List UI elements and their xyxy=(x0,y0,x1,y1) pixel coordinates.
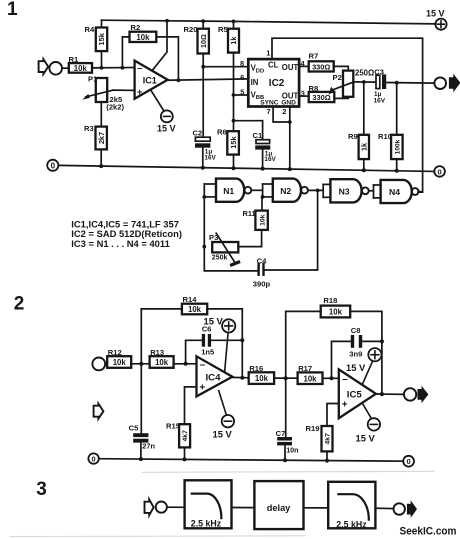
svg-text:N3: N3 xyxy=(339,187,350,197)
svg-text:2.5 kHz: 2.5 kHz xyxy=(336,520,367,530)
svg-text:2: 2 xyxy=(282,107,286,116)
svg-text:N4: N4 xyxy=(389,187,400,197)
wire R17 to IC5 inverting input xyxy=(323,377,339,379)
input arrow section3 xyxy=(145,499,154,515)
svg-text:R13: R13 xyxy=(150,348,164,357)
svg-text:N1: N1 xyxy=(223,186,234,196)
output terminal section2 xyxy=(404,386,429,403)
svg-text:10k: 10k xyxy=(74,64,88,73)
svg-text:10k: 10k xyxy=(303,374,317,383)
svg-text:10k: 10k xyxy=(255,374,269,383)
ground terminal right section2 xyxy=(403,456,414,467)
svg-text:R12: R12 xyxy=(108,348,122,357)
svg-text:R6: R6 xyxy=(217,128,227,137)
svg-text:R8: R8 xyxy=(309,84,319,93)
capacitor C5 27n xyxy=(129,364,156,459)
resistor R1 10k xyxy=(69,55,93,73)
svg-text:DD: DD xyxy=(256,68,264,74)
wire VBB pin5 xyxy=(232,87,249,97)
svg-text:OUT: OUT xyxy=(282,63,299,72)
op-amp IC4 xyxy=(197,356,233,396)
svg-text:delay: delay xyxy=(267,503,291,513)
svg-text:+: + xyxy=(342,399,348,410)
resistor R5 1k xyxy=(218,20,239,132)
node X junction xyxy=(139,362,143,366)
svg-text:R17: R17 xyxy=(298,364,312,373)
output terminal section1 xyxy=(434,74,460,93)
svg-text:IN: IN xyxy=(251,78,259,87)
svg-text:1n5: 1n5 xyxy=(201,347,215,356)
capacitor C2 1u xyxy=(193,128,217,167)
svg-text:R2: R2 xyxy=(131,23,141,32)
wire P1 bottom to R3 xyxy=(100,102,102,127)
svg-text:10k: 10k xyxy=(329,308,343,317)
wire filter2 to output xyxy=(375,507,393,509)
capacitor C6 1n5 xyxy=(186,325,245,364)
svg-text:250k: 250k xyxy=(212,254,228,261)
svg-text:4k7: 4k7 xyxy=(182,430,189,442)
junction IC4 output node xyxy=(240,376,244,380)
junction dots ground bus section2 xyxy=(139,457,329,463)
svg-text:R9: R9 xyxy=(348,132,358,141)
scan artifact bottom edge xyxy=(10,535,305,538)
wire VBB node to C1 xyxy=(234,120,263,122)
nand gate N2 xyxy=(273,179,308,202)
svg-text:+: + xyxy=(137,87,143,98)
ground bus section2 xyxy=(99,459,404,462)
svg-text:2.5 kHz: 2.5 kHz xyxy=(191,518,222,528)
wire N1 out to N2 in xyxy=(251,184,272,199)
svg-text:1: 1 xyxy=(266,49,270,58)
svg-text:15k: 15k xyxy=(229,136,238,149)
wire P2 wiper to C3 xyxy=(353,81,375,83)
svg-text:IC4: IC4 xyxy=(206,373,222,384)
wire N2 out to N3 in xyxy=(308,184,331,197)
wire delay to filter2 xyxy=(304,507,329,509)
svg-text:15 V: 15 V xyxy=(204,315,224,326)
svg-text:4k7: 4k7 xyxy=(325,433,332,445)
junction C6 tap xyxy=(184,362,188,366)
svg-text:IC1: IC1 xyxy=(143,76,157,86)
ground terminal right xyxy=(434,166,445,177)
power -15V of IC5 xyxy=(356,403,381,444)
resistor R13 10k xyxy=(150,348,174,368)
resistor R4 15k xyxy=(85,20,108,68)
svg-text:R15: R15 xyxy=(166,422,181,431)
svg-text:R1: R1 xyxy=(69,55,79,64)
svg-text:10k: 10k xyxy=(113,358,127,367)
svg-text:SYNC: SYNC xyxy=(260,100,279,107)
svg-text:15 V: 15 V xyxy=(426,9,445,19)
wire IC4 + input to R15 xyxy=(185,387,197,424)
wire C4 right to N2 output node xyxy=(265,190,318,270)
svg-text:IC3 = N1 . . . N4 = 4011: IC3 = N1 . . . N4 = 4011 xyxy=(71,238,170,249)
svg-text:GND: GND xyxy=(281,100,296,107)
svg-text:2: 2 xyxy=(14,293,25,314)
svg-text:16V: 16V xyxy=(374,98,386,105)
svg-text:0: 0 xyxy=(51,161,56,170)
resistor R15 4k7 xyxy=(166,422,190,460)
ground bus section1 xyxy=(59,165,434,171)
ground terminal left section2 xyxy=(88,453,98,463)
wire IC5 output xyxy=(376,393,404,395)
svg-text:15 V: 15 V xyxy=(157,123,176,133)
wire IC5 + input to R19 xyxy=(327,404,339,427)
capacitor C8 3n9 xyxy=(332,326,384,378)
svg-text:330Ω: 330Ω xyxy=(312,63,330,72)
svg-text:IC5: IC5 xyxy=(347,389,363,400)
svg-text:0: 0 xyxy=(437,167,441,176)
IC2 SAD512D body xyxy=(248,59,299,107)
power -15V of IC1 xyxy=(151,90,176,134)
wire CL pin1 clock line from N4 xyxy=(266,38,422,192)
wire pin3 to R8 xyxy=(299,89,309,98)
wire IC2 gnd pin2 xyxy=(282,107,291,169)
svg-text:R10: R10 xyxy=(378,132,392,141)
svg-text:15 V: 15 V xyxy=(346,362,366,373)
wire +15V top rail xyxy=(102,20,436,24)
resistor R12 10k xyxy=(107,348,131,368)
svg-text:250Ω: 250Ω xyxy=(355,68,374,77)
svg-text:R5: R5 xyxy=(218,25,228,34)
note IC list xyxy=(71,218,182,249)
power +15V of IC4 xyxy=(204,315,236,372)
nand gate N1 xyxy=(204,179,251,202)
svg-text:C2: C2 xyxy=(193,128,203,137)
resistor R14 10k feedback xyxy=(141,295,242,378)
svg-text:R4: R4 xyxy=(85,25,95,34)
svg-text:R3: R3 xyxy=(84,124,94,133)
svg-text:R19: R19 xyxy=(306,424,320,433)
block delay xyxy=(254,481,303,529)
op-amp IC5 xyxy=(339,369,376,418)
capacitor C1 1u xyxy=(253,121,277,169)
junction IC1 output node xyxy=(177,78,181,82)
wire input to filter1 xyxy=(167,506,185,508)
input terminal section3 xyxy=(156,502,167,513)
svg-text:15 V: 15 V xyxy=(213,428,233,439)
nand gate N4 xyxy=(381,180,419,203)
wire input to R1 xyxy=(62,67,69,69)
svg-text:10k: 10k xyxy=(155,358,169,367)
svg-text:330Ω: 330Ω xyxy=(312,93,330,102)
svg-text:C8: C8 xyxy=(351,326,361,335)
wire R1 to node A and IC1 inverting input xyxy=(92,67,135,69)
svg-text:10k: 10k xyxy=(188,305,202,314)
block filter2 2.5 kHz xyxy=(328,482,375,530)
junction R18/C7 tap xyxy=(284,376,288,380)
potentiometer P2 250ohm xyxy=(329,68,375,97)
wire P1 wiper to IC1 + input xyxy=(113,89,135,91)
resistor R18 10k feedback xyxy=(286,296,382,437)
svg-text:N2: N2 xyxy=(280,186,291,196)
input terminal circle xyxy=(49,62,62,75)
svg-text:15 V: 15 V xyxy=(356,433,376,444)
svg-text:1k: 1k xyxy=(229,37,238,45)
wire IC1 V+ from top rail xyxy=(152,19,169,71)
resistor R11 10k xyxy=(238,197,267,247)
ground terminal left xyxy=(47,160,58,171)
resistor R9 1k xyxy=(348,82,369,170)
wire R13 to IC4 inverting input xyxy=(174,363,197,365)
power +15V terminal xyxy=(426,9,447,30)
input terminal section2 xyxy=(92,358,105,371)
wire IC1 output to IC2 IN pin xyxy=(168,79,249,80)
op-amp IC1 xyxy=(135,61,168,99)
input arrow section2 xyxy=(94,404,104,419)
svg-text:R18: R18 xyxy=(323,296,337,305)
svg-text:–: – xyxy=(342,374,348,385)
svg-text:SeekIC.com: SeekIC.com xyxy=(400,525,457,537)
resistor R10 100k xyxy=(378,83,403,171)
junction R10 tap xyxy=(395,81,399,85)
svg-text:27n: 27n xyxy=(142,442,155,451)
svg-text:15k: 15k xyxy=(97,32,106,45)
svg-text:(2k2): (2k2) xyxy=(106,102,124,111)
svg-text:C1: C1 xyxy=(253,131,263,140)
svg-text:100k: 100k xyxy=(394,139,401,154)
resistor R20 10ohm xyxy=(184,19,209,137)
wire N3 out to N4 in xyxy=(369,185,381,198)
svg-text:C5: C5 xyxy=(129,423,139,432)
svg-text:R11: R11 xyxy=(243,209,256,218)
svg-text:16V: 16V xyxy=(264,156,276,163)
svg-text:0: 0 xyxy=(92,455,96,464)
wire IC4 output xyxy=(232,376,248,378)
svg-text:+: + xyxy=(199,383,205,394)
svg-text:390p: 390p xyxy=(253,279,271,288)
output terminal section3 xyxy=(394,500,417,518)
wire C3 to output xyxy=(386,82,434,85)
wire pin4 to R7 xyxy=(299,59,309,68)
wire N1 input bracket down to P3/C4 xyxy=(202,184,257,271)
svg-text:CL: CL xyxy=(268,60,279,69)
wire R16 to R17 xyxy=(274,377,298,379)
junction R9 tap xyxy=(362,80,366,84)
resistor R3 2k7 xyxy=(84,124,107,166)
svg-text:10Ω: 10Ω xyxy=(199,34,208,48)
junction R2 tap on inverting input xyxy=(121,66,125,70)
power -15V of IC4 xyxy=(213,391,235,440)
junction C8 tap xyxy=(330,376,334,380)
svg-text:2k7: 2k7 xyxy=(97,132,106,144)
svg-text:8: 8 xyxy=(240,59,244,68)
nand gate N3 xyxy=(330,179,368,202)
resistor R19 4k7 xyxy=(306,424,333,461)
svg-text:P1: P1 xyxy=(88,75,98,84)
svg-text:7: 7 xyxy=(267,107,271,116)
svg-text:R20: R20 xyxy=(184,25,198,34)
resistor R16 10k xyxy=(249,364,274,384)
svg-text:1k: 1k xyxy=(359,143,368,151)
svg-text:1: 1 xyxy=(7,0,18,20)
svg-text:10k: 10k xyxy=(259,214,266,226)
capacitor C7 10n xyxy=(276,429,299,460)
svg-text:P2: P2 xyxy=(333,73,342,82)
wire filter1 to delay xyxy=(232,507,255,509)
resistor R8 330ohm xyxy=(309,84,349,102)
resistor R6 15k xyxy=(217,119,239,168)
svg-text:3n9: 3n9 xyxy=(349,350,362,359)
wire R12 to R13 node X xyxy=(131,363,149,365)
svg-text:3: 3 xyxy=(36,479,47,500)
capacitor C4 390p xyxy=(253,256,271,288)
junction R18 output tap xyxy=(380,392,384,396)
wire IC2 sync pin7 xyxy=(267,107,290,123)
resistor R17 10k xyxy=(298,364,323,384)
potentiometer P1 2k5 xyxy=(82,75,124,112)
svg-text:6: 6 xyxy=(240,73,244,82)
junction dots on ground bus xyxy=(99,164,399,173)
svg-text:R14: R14 xyxy=(183,295,198,304)
svg-text:–: – xyxy=(137,63,142,74)
svg-text:IC2: IC2 xyxy=(269,78,285,89)
block filter1 2.5 kHz xyxy=(185,480,232,528)
svg-text:R7: R7 xyxy=(309,52,319,61)
resistor R2 10k feedback xyxy=(122,23,178,80)
wire VDD pin8 xyxy=(201,59,248,69)
resistor R7 330ohm xyxy=(309,52,349,72)
wire N4 output to clock vertical xyxy=(419,191,423,193)
svg-text:10k: 10k xyxy=(136,33,150,42)
svg-text:0: 0 xyxy=(406,457,410,466)
capacitor C3 1u xyxy=(374,67,387,104)
scan artifact streak above section3 xyxy=(142,471,434,472)
svg-text:R16: R16 xyxy=(249,364,263,373)
potentiometer P3 250k xyxy=(209,233,239,265)
svg-text:10n: 10n xyxy=(286,446,298,455)
svg-text:C7: C7 xyxy=(276,429,286,438)
svg-text:–: – xyxy=(200,359,206,370)
node A junction xyxy=(100,66,104,70)
wire input to R12 xyxy=(105,363,107,365)
power +15V of IC5 xyxy=(346,348,382,384)
svg-text:16V: 16V xyxy=(204,155,216,162)
input terminal arrow xyxy=(39,59,49,74)
svg-text:5: 5 xyxy=(240,87,244,96)
